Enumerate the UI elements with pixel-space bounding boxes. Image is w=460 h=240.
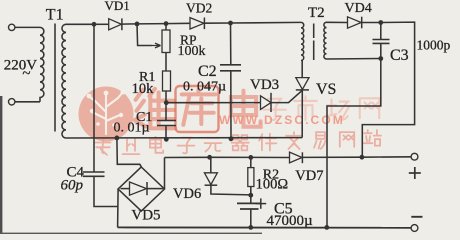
svg-text:VD7: VD7	[295, 168, 323, 184]
wire	[362, 22, 381, 24]
wire	[230, 71, 232, 139]
diode VD1	[109, 19, 122, 30]
diode VD7	[290, 152, 303, 163]
transformer T2 core	[313, 24, 315, 39]
wire rail to bridge	[117, 138, 141, 167]
wire	[230, 23, 232, 65]
node junction plus line	[360, 155, 365, 160]
capacitor C1	[157, 120, 176, 122]
wire	[94, 23, 109, 25]
node E junction R1/C1/gate	[164, 100, 169, 105]
svg-text:C3: C3	[390, 47, 409, 64]
watermark char bottom row	[123, 139, 140, 154]
watermark char dian big	[231, 91, 261, 127]
wire	[165, 91, 167, 103]
node B junction	[135, 22, 140, 27]
output terminal minus	[411, 225, 418, 232]
node junction VD6 tap	[207, 155, 212, 160]
svg-text:VD5: VD5	[131, 208, 160, 224]
diode VD3	[261, 96, 272, 110]
thyristor VS	[296, 78, 309, 90]
svg-text:100Ω: 100Ω	[256, 176, 289, 192]
svg-text:WWW.DZSC.COM: WWW.DZSC.COM	[219, 113, 345, 127]
watermark char bottom row	[314, 132, 325, 149]
diode VD4	[348, 17, 362, 28]
wire	[137, 24, 152, 46]
wire	[231, 21, 302, 24]
wire	[204, 22, 230, 24]
wire	[15, 101, 40, 103]
wire	[380, 43, 382, 58]
bridge rectifier VD5 diamond	[118, 167, 164, 211]
svg-text:60p: 60p	[61, 178, 84, 194]
transformer T1 primary winding	[40, 27, 44, 101]
wire	[250, 157, 252, 167]
potentiometer RP	[162, 30, 170, 53]
svg-text:47000µ: 47000µ	[267, 213, 314, 229]
watermark char bottom row	[259, 134, 276, 151]
node C junction	[164, 21, 169, 26]
node A junction	[92, 22, 97, 27]
watermark char bottom row	[205, 138, 222, 152]
resistor R2	[248, 168, 254, 187]
wire	[250, 187, 252, 196]
wire T2 secondary bottom	[327, 58, 381, 61]
svg-text:10k: 10k	[132, 81, 155, 97]
label plus sign	[409, 172, 421, 174]
svg-text:C2: C2	[198, 63, 217, 80]
potentiometer RP wiper arrow	[152, 43, 161, 48]
wire	[210, 157, 212, 173]
wire	[165, 24, 167, 30]
node junction C2-rail	[229, 136, 234, 141]
wire minus rail	[118, 226, 412, 228]
wire	[166, 22, 190, 24]
node junction VD6/R2/C5	[248, 193, 253, 198]
diode VD6	[204, 173, 217, 185]
capacitor C3	[373, 39, 390, 41]
label minus sign	[411, 216, 422, 218]
wire	[122, 23, 137, 25]
svg-text:~: ~	[22, 66, 30, 82]
svg-text:T1: T1	[46, 7, 64, 24]
wire	[380, 23, 382, 40]
transformer T2 secondary winding	[324, 22, 327, 59]
scan edge artifact bottom	[0, 233, 262, 234]
wire	[211, 185, 251, 195]
bridge inner diode	[121, 188, 130, 190]
svg-text:VD4: VD4	[345, 1, 372, 16]
capacitor C5 electrolytic	[237, 202, 261, 204]
svg-text:0. 01µ: 0. 01µ	[114, 121, 150, 136]
label C5 plus	[255, 203, 266, 205]
output terminal plus	[411, 153, 418, 160]
scan edge artifact left	[0, 96, 2, 234]
wire	[251, 156, 290, 158]
svg-text:1000p: 1000p	[417, 38, 451, 53]
transformer T1 secondary winding	[62, 24, 66, 138]
svg-text:VD1: VD1	[105, 0, 130, 13]
watermark logo circle	[79, 87, 134, 142]
wire	[165, 126, 167, 140]
diode VD2	[190, 18, 204, 29]
wire	[210, 156, 251, 158]
watermark char bottom row	[364, 130, 381, 146]
wire	[327, 21, 348, 23]
wire	[250, 195, 252, 203]
watermark char outlined	[360, 98, 379, 118]
watermark char outlined	[263, 99, 286, 120]
svg-text:T2: T2	[308, 5, 325, 21]
wire	[15, 26, 40, 28]
wire	[165, 156, 210, 158]
watermark char bottom row	[150, 137, 163, 153]
node junction C5-rail	[248, 225, 253, 230]
watermark char bottom row	[340, 132, 354, 147]
svg-text:0. 047µ: 0. 047µ	[183, 80, 226, 95]
svg-text:VD6: VD6	[173, 186, 201, 202]
svg-text:220V: 220V	[4, 58, 38, 74]
transformer T2 primary winding	[301, 22, 304, 60]
watermark char bottom row	[232, 135, 249, 150]
node D junction	[228, 21, 233, 26]
transformer T1 core	[54, 24, 56, 132]
watermark char bottom row	[178, 138, 195, 154]
wire	[165, 103, 167, 121]
watermark char wei	[135, 89, 175, 129]
capacitor C2	[220, 64, 241, 66]
AC input terminal bottom	[9, 99, 15, 105]
node junction rail-bridge	[115, 136, 120, 141]
wire gate line	[166, 102, 260, 104]
wire	[93, 24, 95, 172]
wire	[137, 23, 166, 25]
wire AC rail	[66, 137, 302, 139]
node junction C1-rail	[164, 137, 169, 142]
wire bridge left corner down	[117, 189, 120, 227]
wire	[165, 53, 167, 72]
wire VS cathode	[301, 90, 303, 138]
watermark char outlined	[327, 99, 349, 120]
wire bridge right corner up	[164, 158, 166, 190]
watermark char bottom row	[286, 132, 302, 149]
wire	[94, 176, 118, 206]
wire	[66, 23, 94, 25]
node junction minus rail	[324, 225, 329, 230]
node junction VD4-C3	[378, 20, 383, 25]
AC input terminal top	[9, 24, 15, 30]
svg-text:100k: 100k	[178, 44, 206, 59]
wire C3 to minus rail	[327, 59, 381, 228]
capacitor C4	[83, 171, 105, 173]
svg-text:VD3: VD3	[250, 77, 279, 93]
node junction C3 bottom	[378, 56, 383, 61]
wire	[302, 156, 362, 158]
wire	[301, 60, 303, 77]
wire	[362, 156, 411, 158]
watermark char ku boxed	[176, 86, 219, 132]
wire	[250, 209, 252, 227]
svg-text:VD2: VD2	[186, 0, 212, 15]
svg-text:VS: VS	[316, 81, 336, 98]
wire plus path	[362, 22, 414, 157]
watermark char outlined	[294, 96, 317, 120]
resistor R1	[163, 71, 171, 91]
wire	[271, 91, 302, 103]
watermark char bottom row	[95, 139, 110, 155]
node junction R2 tap	[248, 155, 253, 160]
